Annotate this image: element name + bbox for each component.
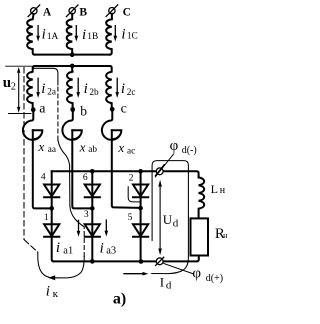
bridge negative-side bus (to phi d plus) <box>54 256 199 262</box>
svg-text:i: i <box>82 27 86 43</box>
terminal phi d(-) <box>156 168 163 175</box>
svg-text:1B: 1B <box>87 32 98 42</box>
primary neutral bus wire <box>35 54 110 56</box>
svg-text:B: B <box>79 6 87 18</box>
svg-text:L: L <box>211 182 218 196</box>
svg-text:i: i <box>41 81 45 97</box>
top bus junction leg 2-5 <box>138 169 143 174</box>
current arrow i1B <box>75 26 79 42</box>
voltage dimension u2 ticks <box>6 66 32 113</box>
node b <box>70 107 75 112</box>
svg-text:1: 1 <box>44 213 49 223</box>
conduction loop around diode 2 hook <box>128 187 140 202</box>
bridge midpoint junction c <box>138 206 143 211</box>
svg-text:i: i <box>42 26 46 42</box>
current arrow i1C <box>114 26 118 42</box>
svg-text:4: 4 <box>41 173 46 183</box>
bridge midpoint junction a <box>49 206 54 211</box>
diode 1 <box>44 224 59 236</box>
svg-text:d(-): d(-) <box>182 145 197 156</box>
svg-text:i: i <box>46 283 50 299</box>
svg-text:d: d <box>166 279 172 291</box>
svg-text:u: u <box>3 75 11 91</box>
svg-text:2: 2 <box>11 81 16 92</box>
anode reactor x_ac <box>102 111 121 140</box>
svg-text:x: x <box>79 139 86 154</box>
valve leg 2-5 wire <box>140 171 142 261</box>
svg-text:2b: 2b <box>89 88 99 98</box>
svg-text:a3: a3 <box>106 245 116 256</box>
svg-text:i: i <box>121 81 125 97</box>
conduction loop around terminal phi d(-) <box>152 161 189 274</box>
secondary bus wire <box>35 65 110 67</box>
svg-text:i: i <box>84 81 88 97</box>
bridge midpoint junction b <box>90 206 95 211</box>
svg-text:x: x <box>38 139 45 154</box>
top bus junction leg 3-6 <box>90 169 95 174</box>
secondary bus junction b <box>70 64 75 69</box>
svg-text:C: C <box>123 6 131 18</box>
phase terminal C <box>106 5 118 17</box>
current arrow i2c <box>115 78 119 98</box>
current arrow ia1 <box>77 220 81 236</box>
svg-text:н: н <box>220 185 226 196</box>
svg-text:а): а) <box>113 290 126 307</box>
svg-text:н: н <box>223 231 228 240</box>
svg-text:6: 6 <box>83 173 88 183</box>
phase terminal A <box>28 5 40 17</box>
svg-text:aa: aa <box>48 145 56 155</box>
svg-text:ac: ac <box>127 146 135 156</box>
pointer and slash phi d(-) <box>155 154 173 177</box>
svg-text:ab: ab <box>88 145 97 155</box>
phase a wire to bridge <box>33 130 52 208</box>
svg-text:d: d <box>173 217 179 229</box>
diode 6 <box>85 185 100 198</box>
valve leg 3-6 wire <box>91 171 93 261</box>
node c <box>110 107 115 112</box>
current arrow ia3 <box>105 220 109 237</box>
transformer secondary winding c <box>106 66 112 110</box>
svg-text:I: I <box>160 274 164 289</box>
current arrow Id <box>124 272 148 276</box>
svg-text:b: b <box>80 104 87 119</box>
diode 5 <box>133 224 148 236</box>
transformer secondary winding b <box>67 66 73 110</box>
svg-text:c: c <box>121 102 127 117</box>
anode reactor x_ab <box>62 111 81 140</box>
svg-text:φ: φ <box>192 266 201 282</box>
slash of terminal phi d(-) <box>155 165 164 176</box>
commutation current arrow ik <box>48 275 55 280</box>
terminal phi d(+) <box>156 257 164 265</box>
svg-text:x: x <box>117 140 124 155</box>
anode reactor x_aa <box>23 111 42 140</box>
svg-text:2: 2 <box>129 174 134 184</box>
current arrow i1A <box>36 26 40 42</box>
valve leg 1-4 wire <box>52 171 54 261</box>
svg-text:3: 3 <box>84 210 89 220</box>
commutation loop dashed left side <box>24 68 84 278</box>
svg-text:a1: a1 <box>63 245 73 256</box>
svg-text:a: a <box>39 102 46 117</box>
svg-text:1A: 1A <box>47 32 59 42</box>
svg-text:i: i <box>121 26 125 42</box>
svg-text:к: к <box>53 288 59 300</box>
transformer secondary winding a <box>27 66 34 110</box>
transformer primary winding C <box>106 14 112 55</box>
svg-text:1C: 1C <box>127 32 138 42</box>
voltage arrow Ud <box>158 180 162 256</box>
transformer primary winding B <box>67 14 73 55</box>
transformer primary winding A <box>27 14 34 55</box>
phase b wire to bridge <box>72 130 92 208</box>
load resistor Rn <box>191 218 209 255</box>
phase terminal B <box>66 5 78 17</box>
svg-text:2a: 2a <box>47 88 56 98</box>
diode 2 <box>133 185 148 198</box>
load inductor Ln <box>199 177 205 218</box>
bridge positive-side bus (to phi d minus) <box>52 171 199 177</box>
pointer phi d(+) <box>164 264 193 274</box>
svg-text:i: i <box>56 240 60 256</box>
current arrow i2b <box>76 78 80 98</box>
svg-text:2c: 2c <box>127 88 136 98</box>
phase c wire to bridge <box>112 130 141 208</box>
svg-text:5: 5 <box>128 213 133 223</box>
node a <box>31 107 36 112</box>
primary neutral junction <box>70 52 75 57</box>
svg-text:d(+): d(+) <box>206 273 223 284</box>
svg-text:i: i <box>100 240 104 256</box>
bottom bus junction leg 5 <box>139 259 144 264</box>
svg-text:φ: φ <box>170 138 179 154</box>
bottom bus junction leg 3 <box>90 259 95 264</box>
svg-text:A: A <box>43 6 52 18</box>
voltage dimension arrow u2 <box>17 67 20 113</box>
diode 3 <box>85 224 100 236</box>
svg-text:U: U <box>163 212 173 227</box>
diode 4 <box>44 185 59 198</box>
current arrow i2a <box>36 78 40 98</box>
